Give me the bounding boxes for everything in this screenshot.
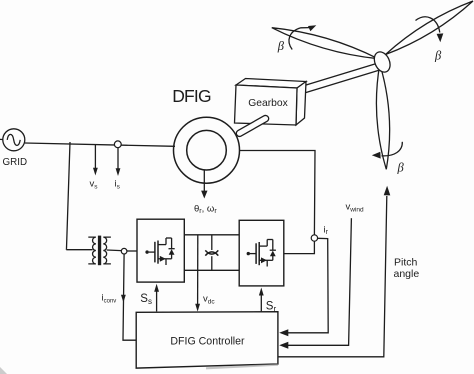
vwind wire (288, 218, 351, 345)
svg-text:β: β (434, 49, 442, 63)
svg-text:Pitch: Pitch (394, 257, 418, 269)
svg-text:angle: angle (394, 268, 420, 280)
sine wave (7, 134, 20, 145)
node iconv (121, 248, 127, 254)
DC link bottom rail (184, 269, 239, 271)
node on bus (114, 141, 121, 148)
grid-side converter box (137, 219, 184, 282)
DC link top rail (184, 234, 239, 236)
transformer secondary winding (103, 237, 111, 264)
DC link capacitor (211, 235, 213, 250)
iconv wire (123, 254, 136, 340)
shaft gearbox-to-DFIG (240, 119, 266, 134)
svg-text:DFIG Controller: DFIG Controller (170, 336, 245, 348)
svg-text:β: β (277, 39, 285, 53)
transformer core (98, 236, 101, 266)
vs arrow (94, 145, 96, 169)
theta/omega arrow (203, 170, 205, 191)
wire node to RSC (284, 241, 315, 253)
bottom-left corner smudge (0, 367, 7, 374)
rotor wire DFIG to node (240, 151, 316, 235)
is arrow (117, 147, 119, 169)
grid-side MOSFET U1 (145, 238, 174, 265)
DFIG machine outer circle (174, 117, 240, 183)
svg-text:GRID: GRID (3, 157, 28, 168)
rotor-side MOSFET U2 (247, 240, 276, 267)
Ss gate arrow (156, 292, 158, 312)
DFIG controller box (136, 312, 278, 368)
transformer primary winding (88, 237, 96, 264)
turbine blade B1 upper-right (386, 1, 474, 55)
rotor-side converter box (239, 220, 284, 286)
hub (371, 49, 393, 74)
DFIG machine inner circle (187, 130, 227, 170)
main shaft hub-to-gearbox (304, 66, 381, 90)
svg-text:β: β (397, 161, 405, 175)
pitch arc arrow blade B2 (289, 28, 309, 50)
svg-text:DFIG: DFIG (172, 86, 211, 106)
pitch arc arrow blade B1 (416, 17, 440, 33)
controller bottom edge blur (206, 365, 278, 369)
pitch angle wire (278, 196, 387, 357)
grid source circle (3, 129, 25, 151)
turbine blade B2 left (272, 28, 378, 59)
drop wire to transformer (66, 142, 70, 250)
svg-text:Gearbox: Gearbox (248, 98, 288, 109)
lead node to GSC (127, 250, 137, 252)
transformer left lead (66, 249, 92, 251)
gearbox 3D box (236, 79, 306, 89)
stator bus wire (25, 143, 175, 146)
turbine blade B3 down (376, 64, 389, 169)
pitch arc arrow blade B3 (382, 142, 403, 156)
node ir (311, 235, 317, 241)
grid stub (0, 138, 3, 140)
ir measurement wire (288, 238, 328, 332)
vdc measurement wire (197, 235, 199, 305)
transformer right lead (107, 249, 122, 252)
Sr gate arrow (260, 295, 262, 311)
iconv flow arrow (121, 295, 126, 303)
svg-text:θr, ωr: θr, ωr (194, 204, 217, 216)
